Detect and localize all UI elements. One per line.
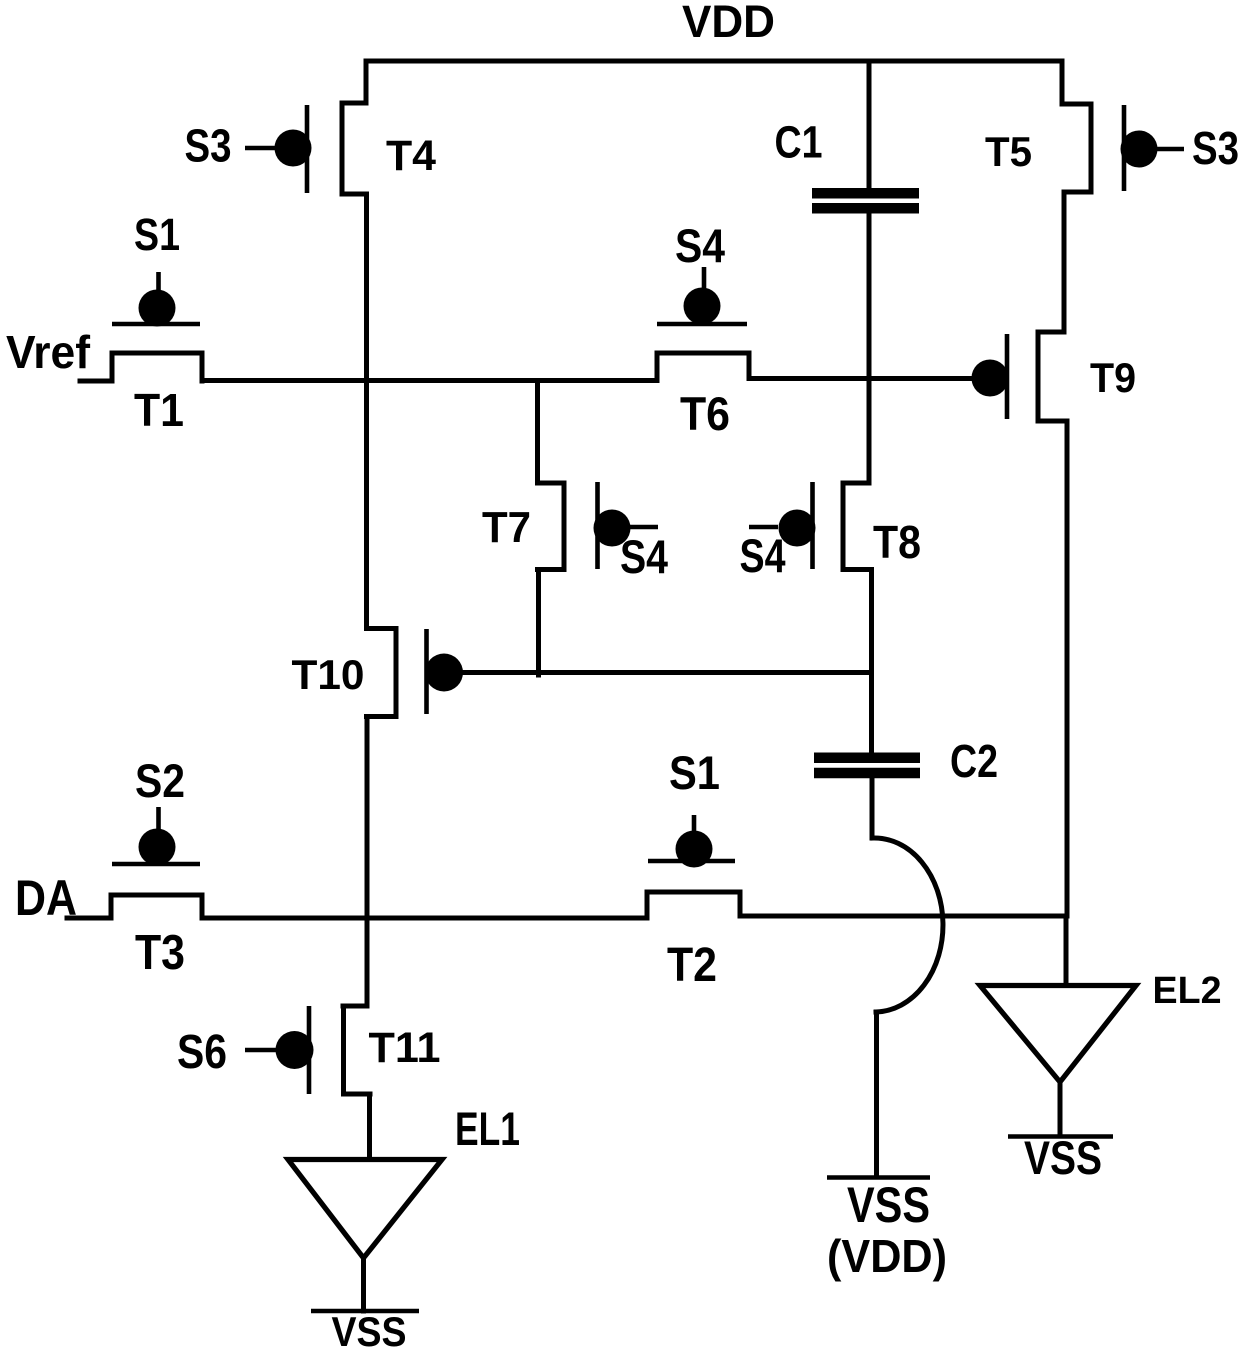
svg-text:C1: C1 xyxy=(775,117,823,168)
ground VSS (VDD) xyxy=(827,1175,930,1180)
wire T10 source down to DA line xyxy=(365,717,370,919)
transistor T6 xyxy=(657,353,749,381)
svg-text:T8: T8 xyxy=(873,516,921,568)
transistor T2 xyxy=(647,892,740,917)
svg-text:VSS: VSS xyxy=(332,1308,407,1354)
capacitor C2 xyxy=(814,758,920,838)
svg-text:S4: S4 xyxy=(620,530,668,583)
svg-text:T1: T1 xyxy=(134,384,184,436)
svg-text:S4: S4 xyxy=(675,219,725,272)
gate S1 of T2 xyxy=(648,815,735,868)
svg-text:S6: S6 xyxy=(177,1026,227,1079)
transistor T5 xyxy=(1062,61,1184,192)
transistor T10 xyxy=(367,629,464,717)
wire VDD top rail xyxy=(366,59,1062,64)
wire hop over DA line xyxy=(873,838,943,1012)
transistor T8 xyxy=(749,482,872,570)
wire Vref line down to T7 xyxy=(535,381,540,483)
svg-text:EL1: EL1 xyxy=(455,1102,520,1155)
svg-text:T7: T7 xyxy=(482,503,531,552)
svg-text:Vref: Vref xyxy=(6,326,91,378)
transistor T11 xyxy=(245,1006,370,1094)
svg-text:EL2: EL2 xyxy=(1153,970,1222,1012)
wire T1 to T6 xyxy=(202,378,657,383)
svg-text:S1: S1 xyxy=(134,209,180,260)
svg-text:S1: S1 xyxy=(669,746,720,799)
wire EL2 to ground xyxy=(1058,1082,1063,1136)
wire T8 source down to C2 xyxy=(869,570,874,753)
wire T2 to EL2 junction xyxy=(740,914,1065,919)
svg-text:T4: T4 xyxy=(386,132,436,180)
transistor T9 xyxy=(972,192,1068,421)
svg-text:T3: T3 xyxy=(135,926,185,980)
svg-text:T10: T10 xyxy=(292,651,365,698)
wire DA stub xyxy=(67,916,111,921)
diode EL1 xyxy=(288,1160,442,1259)
svg-text:T6: T6 xyxy=(680,387,730,440)
gate S4 of T6 xyxy=(657,267,747,325)
wire DA junction down to T11 xyxy=(365,918,370,1006)
wire EL1 to ground xyxy=(361,1258,366,1311)
svg-text:C2: C2 xyxy=(950,735,998,787)
wire T7 source down xyxy=(536,570,541,676)
wire hop to VSS(VDD) ground xyxy=(874,1012,879,1177)
svg-text:(VDD): (VDD) xyxy=(827,1230,947,1282)
svg-text:VSS: VSS xyxy=(847,1177,930,1233)
gate S2 of T3 xyxy=(112,807,200,866)
wire junction down to EL2 xyxy=(1064,916,1069,984)
wire Vref stub xyxy=(80,379,112,384)
svg-text:VSS: VSS xyxy=(1024,1131,1102,1184)
wire T4 source down to T10 xyxy=(364,194,369,628)
transistor T7 xyxy=(538,482,659,570)
svg-text:S4: S4 xyxy=(740,529,786,582)
svg-text:S3: S3 xyxy=(185,120,232,172)
wire T10 gate to T8 source xyxy=(462,670,872,675)
transistor T3 xyxy=(111,895,202,918)
diode EL2 xyxy=(980,986,1136,1083)
svg-text:T11: T11 xyxy=(369,1024,441,1072)
ground VSS (EL1) xyxy=(311,1309,419,1314)
ground VSS (EL2) xyxy=(1008,1134,1113,1139)
svg-text:T2: T2 xyxy=(667,939,717,992)
transistor T4 xyxy=(245,61,366,194)
transistor T1 xyxy=(112,353,202,381)
svg-text:S2: S2 xyxy=(135,754,185,807)
capacitor C1 xyxy=(812,61,919,483)
svg-text:S3: S3 xyxy=(1192,122,1239,174)
wire T6 to T9 gate xyxy=(749,376,973,381)
svg-text:VDD: VDD xyxy=(682,0,775,47)
svg-text:T9: T9 xyxy=(1090,354,1136,401)
gate S1 of T1 xyxy=(112,272,200,327)
wire T9 source down to DA junction xyxy=(1065,421,1070,916)
wire T3 to T2 xyxy=(202,916,647,921)
svg-text:T5: T5 xyxy=(985,128,1032,175)
wire T11 source to EL1 xyxy=(367,1094,372,1158)
